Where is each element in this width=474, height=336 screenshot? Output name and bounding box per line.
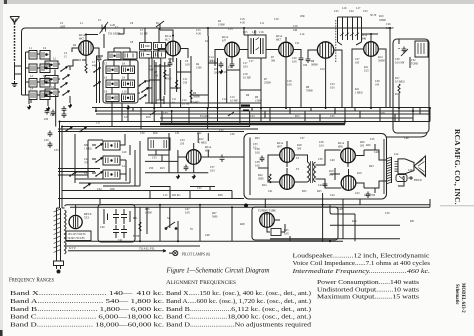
svg-text:C35: C35 (330, 115, 335, 118)
svg-text:C28: C28 (50, 114, 55, 117)
tuning tube box (252, 207, 338, 240)
svg-text:C40: C40 (330, 159, 335, 162)
svg-text:0.02: 0.02 (255, 152, 260, 155)
svg-text:C15: C15 (243, 31, 248, 34)
svg-text:TO AVC: TO AVC (200, 115, 210, 118)
switch S4 (165, 222, 177, 229)
tube V5 osc hatched (317, 42, 333, 58)
svg-text:2000: 2000 (214, 72, 220, 75)
svg-text:R29: R29 (352, 220, 357, 223)
svg-text:0.01 MF: 0.01 MF (395, 62, 405, 65)
svg-text:R13: R13 (160, 167, 165, 170)
svg-text:C35: C35 (152, 157, 157, 160)
wires around V1 V2 V3 (72, 21, 266, 64)
svg-text:L26: L26 (408, 169, 413, 172)
svg-text:Undistorted Output.........10: Undistorted Output.........10 watts (317, 286, 420, 293)
wire drop x124 (118, 28, 124, 34)
svg-text:Schematic: Schematic (454, 284, 459, 305)
svg-text:6K7: 6K7 (276, 37, 282, 41)
svg-text:220: 220 (209, 60, 214, 63)
svg-text:R21: R21 (133, 217, 138, 220)
ground bank2 (126, 105, 130, 110)
ground bank1 left (27, 105, 31, 110)
coil box group between V1 V2 (140, 43, 166, 59)
svg-text:500: 500 (297, 148, 302, 151)
svg-text:200: 200 (360, 145, 365, 148)
shield box (103, 60, 138, 103)
pilot lamp (169, 251, 211, 257)
svg-text:0.25: 0.25 (364, 70, 369, 73)
coil L1 (29, 51, 37, 60)
svg-text:C19: C19 (293, 25, 298, 28)
svg-text:TO ALL FIL.: TO ALL FIL. (139, 247, 155, 251)
svg-text:R24: R24 (262, 184, 267, 187)
wire heater bus3 (68, 250, 148, 252)
cap C5m (45, 108, 50, 115)
svg-text:R28: R28 (218, 194, 223, 197)
svg-text:TO GRID: TO GRID (108, 32, 121, 36)
svg-text:ANT: ANT (60, 26, 66, 29)
svg-text:6F6: 6F6 (338, 144, 343, 148)
svg-text:2000: 2000 (258, 178, 264, 181)
wire v191 (190, 56, 192, 103)
svg-text:C29: C29 (44, 139, 49, 142)
svg-text:300: 300 (271, 60, 276, 63)
audio output shield box (244, 134, 387, 200)
cap C9 (168, 61, 173, 68)
ground C16 (219, 69, 223, 74)
wire L bend (330, 205, 355, 242)
svg-text:0.01: 0.01 (319, 145, 324, 148)
wire antenna lead (15, 62, 23, 80)
svg-text:6.3 V.: 6.3 V. (69, 246, 76, 250)
wire v154 (153, 60, 155, 108)
antenna (10, 17, 20, 63)
wire v165 (164, 62, 166, 95)
svg-text:R20: R20 (366, 144, 371, 147)
svg-text:Intermediate Frequency........: Intermediate Frequency..................… (291, 268, 430, 275)
svg-text:500: 500 (154, 75, 159, 78)
capacitor C41 (113, 225, 127, 238)
svg-text:C51: C51 (96, 122, 101, 125)
loudspeaker (395, 156, 426, 177)
cap C22 (306, 57, 311, 64)
svg-text:240: 240 (293, 29, 298, 32)
res R24 sym (269, 174, 271, 183)
svg-text:R31: R31 (410, 220, 415, 223)
svg-text:TO AVC: TO AVC (190, 101, 200, 104)
svg-text:C39: C39 (318, 158, 323, 161)
hum coil (396, 175, 413, 182)
tube V12 tuning 6G5 (260, 213, 275, 228)
svg-text:R22: R22 (197, 132, 202, 135)
fuse R21 (139, 222, 141, 231)
wire v149 (145, 58, 149, 103)
svg-text:25000: 25000 (264, 82, 271, 85)
coil L18 (106, 94, 119, 102)
cap C38b (366, 192, 371, 199)
svg-text:C31: C31 (175, 132, 180, 135)
svg-text:C44: C44 (330, 194, 335, 197)
tube V3 6J7 osc (225, 42, 240, 57)
svg-text:0.5 MF: 0.5 MF (230, 100, 238, 103)
svg-text:70000: 70000 (306, 90, 313, 93)
coil L3 (45, 61, 58, 69)
svg-text:6L7: 6L7 (165, 37, 170, 41)
res R6 (190, 90, 192, 99)
svg-text:R19: R19 (357, 172, 362, 175)
svg-text:R15: R15 (295, 115, 300, 118)
svg-text:C1: C1 (98, 18, 102, 22)
svg-text:C33: C33 (54, 149, 59, 152)
svg-text:0.01: 0.01 (330, 87, 335, 90)
rectifier V13 5Z3 (69, 213, 82, 229)
coil L21 (103, 156, 120, 165)
wire x59.5 62 drop (60, 122, 63, 209)
svg-text:C40: C40 (100, 226, 105, 229)
wire B bus b (70, 206, 430, 208)
wire bus y121.5 (60, 121, 431, 123)
svg-text:Band B........................: Band B........................... 1,800—… (10, 306, 165, 313)
svg-text:C37: C37 (300, 137, 305, 140)
svg-text:C17: C17 (249, 60, 254, 63)
wire bus heavy (160, 123, 345, 126)
svg-text:250: 250 (180, 143, 185, 146)
coil L10 (40, 91, 50, 100)
svg-text:RCA MFG. CO., INC.: RCA MFG. CO., INC. (453, 129, 462, 205)
svg-text:R17: R17 (395, 93, 400, 96)
svg-text:100: 100 (355, 62, 360, 65)
svg-text:105-125 VOLTS: 105-125 VOLTS (68, 233, 86, 236)
svg-text:50000: 50000 (193, 96, 200, 99)
svg-text:0.05: 0.05 (292, 61, 297, 64)
svg-text:6F5: 6F5 (205, 148, 210, 152)
svg-text:6K7: 6K7 (79, 36, 85, 40)
svg-text:MODEL 613-2: MODEL 613-2 (460, 283, 465, 313)
tube V4 6K7 IF (279, 42, 294, 57)
coil L4 (29, 64, 37, 73)
wire drop x244 (243, 28, 245, 35)
wire top bus (22, 28, 391, 46)
cap C16 (219, 62, 224, 69)
wire bus y103 (145, 102, 261, 104)
extra labels texture (44, 15, 415, 237)
wires bank1 (22, 46, 79, 127)
svg-text:R16: R16 (153, 132, 158, 135)
loudspeaker spec block (291, 253, 430, 301)
svg-text:0.1 MF: 0.1 MF (140, 33, 148, 36)
svg-text:Loudspeaker...........12 inch,: Loudspeaker...........12 inch, Electrody… (293, 253, 430, 260)
antenna coil bank (22, 46, 79, 127)
ground v177 (176, 174, 180, 179)
osc coil cluster (336, 17, 362, 62)
bus tick marks (122, 108, 420, 122)
svg-text:100: 100 (303, 64, 308, 67)
svg-text:220: 220 (44, 118, 49, 121)
coil L8 (45, 76, 58, 84)
tube V11 output (341, 176, 356, 191)
wire v177 (176, 58, 178, 92)
coil L14 (106, 66, 119, 74)
svg-text:L3 7700: L3 7700 (366, 194, 376, 197)
svg-text:C46: C46 (404, 137, 409, 140)
svg-text:Band X........................: Band X............................. 140—… (10, 290, 165, 297)
svg-text:250: 250 (149, 167, 154, 170)
svg-text:6G5: 6G5 (265, 213, 270, 216)
coil L22 (103, 170, 120, 179)
svg-text:C13: C13 (228, 28, 233, 31)
svg-text:1500: 1500 (196, 67, 202, 70)
output transformer T4 (386, 157, 392, 184)
svg-text:C30: C30 (140, 132, 145, 135)
svg-text:0.05: 0.05 (284, 233, 289, 236)
svg-text:L20: L20 (122, 151, 127, 154)
svg-text:6J7: 6J7 (222, 38, 227, 42)
filter box (98, 205, 135, 243)
svg-text:3500: 3500 (166, 78, 172, 81)
coil L6 (29, 79, 37, 88)
svg-text:1 MEG: 1 MEG (355, 92, 363, 95)
svg-text:R25: R25 (302, 190, 307, 193)
svg-text:Voice Coil Impedance......7.1: Voice Coil Impedance......7.1 ohms at 40… (293, 260, 431, 267)
svg-text:C32: C32 (219, 129, 224, 132)
svg-text:50-70: 50-70 (370, 14, 377, 17)
wire h80 (149, 79, 161, 81)
svg-text:Figure 1—Schematic Circuit Dia: Figure 1—Schematic Circuit Diagram (166, 268, 270, 275)
frequency ranges rows (10, 290, 165, 329)
second detector area (145, 133, 244, 179)
tone control box (393, 39, 429, 133)
svg-text:R18: R18 (380, 112, 385, 115)
wire h88 (170, 87, 181, 89)
svg-text:C41: C41 (268, 190, 273, 193)
svg-text:5000: 5000 (212, 216, 218, 219)
svg-text:L16: L16 (342, 7, 347, 10)
svg-text:Band A........................: Band A............................. 540—… (10, 298, 165, 305)
coil L20 (103, 141, 120, 150)
coil L12 (108, 52, 121, 60)
wire heater bus1 (66, 240, 343, 242)
svg-text:C19: C19 (274, 18, 279, 21)
band switch S2 left (97, 56, 104, 103)
wires osc bank (75, 134, 140, 186)
RF coil bank (93, 28, 189, 129)
AC plug (54, 255, 64, 273)
cap C38 sym (260, 156, 265, 163)
power verticals (65, 193, 431, 242)
svg-text:1 MEG: 1 MEG (84, 148, 92, 151)
tube V2 6L7 1st det (166, 41, 181, 56)
coil L16 (106, 80, 119, 88)
wire heater bus2 (66, 245, 200, 247)
osc bank bottom arrows (65, 127, 72, 132)
coil L11 (45, 89, 58, 97)
tube V10 output (341, 148, 356, 163)
svg-text:L10: L10 (122, 91, 127, 94)
tube V6 6H6 2nd det (364, 42, 379, 57)
svg-text:C22: C22 (320, 68, 325, 71)
res R5 (176, 80, 178, 89)
svg-text:250: 250 (183, 82, 188, 85)
svg-text:10000: 10000 (379, 19, 386, 22)
IF can T2 (248, 35, 266, 58)
wire bus y111 (96, 110, 430, 112)
wire h58 (145, 57, 156, 59)
svg-text:1 MEG: 1 MEG (199, 142, 207, 145)
voltage box (66, 231, 91, 241)
res R17 (398, 84, 400, 93)
wire bus y131.5 (58, 131, 244, 133)
cap C42 sym (323, 182, 328, 189)
svg-text:Band C........................: Band C........................... 6,000—… (10, 314, 165, 321)
wire y225 (330, 224, 400, 226)
power buses (65, 193, 431, 251)
vertical drops (96, 28, 430, 129)
svg-text:C25: C25 (334, 10, 339, 13)
res R4 (164, 70, 166, 79)
svg-text:Power Consumption......140 wat: Power Consumption......140 watts (317, 279, 420, 286)
svg-text:C26: C26 (386, 23, 391, 26)
ground bank1 right (68, 103, 72, 108)
svg-text:4-20: 4-20 (196, 33, 202, 36)
coil L9 (29, 91, 37, 100)
svg-text:10000: 10000 (145, 212, 152, 215)
svg-text:C42: C42 (318, 184, 323, 187)
svg-text:300: 300 (149, 69, 154, 72)
svg-text:C16: C16 (259, 31, 264, 34)
svg-text:Band D........................: Band D.......................... 18,000—… (10, 322, 165, 329)
coil L19 (122, 94, 135, 102)
tube V7 6F5 (186, 150, 201, 165)
svg-text:370: 370 (84, 162, 89, 165)
svg-text:15000: 15000 (255, 100, 262, 103)
coil L15 (122, 66, 135, 74)
wire B bus a (66, 204, 430, 206)
ground V7 (192, 174, 196, 179)
wire v208 (208, 36, 215, 108)
wire h72 (177, 71, 191, 73)
wire h63 (208, 62, 217, 64)
svg-text:5Z3: 5Z3 (84, 215, 89, 219)
svg-text:R25: R25 (317, 190, 322, 193)
svg-text:L25: L25 (124, 116, 129, 119)
svg-text:0.05: 0.05 (185, 212, 190, 215)
wire drop x208 (207, 28, 209, 36)
fold line (440, 205, 474, 207)
svg-text:C16: C16 (222, 71, 227, 74)
cap C29a (48, 131, 53, 138)
svg-text:C48: C48 (205, 234, 210, 237)
svg-text:15000: 15000 (218, 24, 225, 27)
svg-text:6N7: 6N7 (277, 144, 283, 148)
svg-text:C23: C23 (363, 10, 368, 13)
tube V8 driver (280, 148, 295, 163)
svg-text:C24: C24 (349, 10, 354, 13)
svg-text:C18: C18 (228, 66, 233, 69)
svg-text:C36: C36 (230, 133, 235, 136)
coil L5 (40, 64, 50, 73)
svg-text:L10: L10 (252, 31, 257, 34)
wire h66 (154, 65, 170, 67)
cap C31 (402, 47, 407, 54)
wires audio (258, 141, 404, 193)
wires around V4 V5 V6 (266, 34, 386, 63)
cathode resistor V1 (85, 64, 87, 73)
cap C18 (230, 62, 235, 69)
area B small parts (145, 36, 261, 108)
svg-text:465 KC: 465 KC (172, 194, 181, 197)
svg-text:C43: C43 (355, 192, 360, 195)
wire h70r (227, 69, 240, 71)
svg-text:R16: R16 (146, 116, 151, 119)
svg-text:0.01: 0.01 (210, 170, 215, 173)
svg-text:L11: L11 (260, 22, 265, 25)
svg-text:R28: R28 (240, 223, 245, 226)
power section top line (58, 186, 244, 199)
svg-text:Band C...................18,00: Band C...................18,000 kc. (osc… (166, 314, 311, 321)
svg-text:C50: C50 (385, 212, 390, 215)
svg-text:C33: C33 (163, 112, 168, 115)
wire v227 (226, 58, 228, 103)
band switch S1 (60, 67, 67, 72)
svg-text:C34: C34 (250, 115, 255, 118)
band switch S3 (95, 144, 102, 149)
tube V1 6K7 RF (79, 41, 94, 56)
svg-text:C49: C49 (374, 151, 379, 154)
wire v170 (169, 58, 171, 108)
band switch S2 right (139, 81, 146, 86)
wire bus y108 (92, 107, 430, 109)
svg-text:Maximum Output.........15 watt: Maximum Output.........15 watts (317, 294, 420, 301)
trimmer C1 on top bus (100, 22, 109, 34)
coil L13 (123, 52, 137, 59)
wire h90r (240, 89, 261, 91)
svg-text:PILOT LAMPS (6): PILOT LAMPS (6) (182, 252, 211, 256)
svg-text:440: 440 (92, 65, 97, 68)
wire y190 (62, 190, 232, 192)
svg-text:0.02: 0.02 (255, 165, 260, 168)
osc bottom arrows (69, 172, 76, 177)
svg-text:30000: 30000 (311, 64, 318, 67)
wire v240 (239, 58, 241, 108)
cap C29b (48, 142, 53, 149)
svg-text:L21: L21 (122, 165, 127, 168)
svg-text:50-60 CYCLES: 50-60 CYCLES (68, 237, 86, 240)
svg-text:Band D.......................N: Band D.......................No adjustme… (166, 322, 312, 329)
wire bus y126.5 (62, 126, 250, 128)
wire v161 (160, 58, 162, 108)
tube V9 driver (280, 175, 295, 190)
ground bank1 mid (46, 106, 50, 111)
svg-text:C12: C12 (222, 98, 227, 101)
svg-text:Band X......150 kc. (osc.), 40: Band X......150 kc. (osc.), 400 kc. (osc… (166, 290, 311, 297)
capacitor C40 (104, 209, 130, 224)
svg-text:OSC: OSC (300, 15, 305, 18)
wire v261 (260, 58, 262, 108)
svg-text:L15: L15 (163, 194, 168, 197)
svg-text:ALIGNMENT FREQUENCIES: ALIGNMENT FREQUENCIES (166, 280, 236, 286)
coil L7 (40, 79, 50, 88)
cap C36 (184, 165, 189, 172)
alignment rows (166, 290, 312, 329)
svg-text:4-20: 4-20 (240, 22, 246, 25)
svg-text:TONE: TONE (411, 63, 418, 66)
svg-text:100: 100 (375, 84, 380, 87)
wire v218 (217, 58, 219, 108)
wire v181 (180, 60, 182, 108)
mid buses (58, 28, 430, 208)
IF can T5 (148, 138, 170, 150)
